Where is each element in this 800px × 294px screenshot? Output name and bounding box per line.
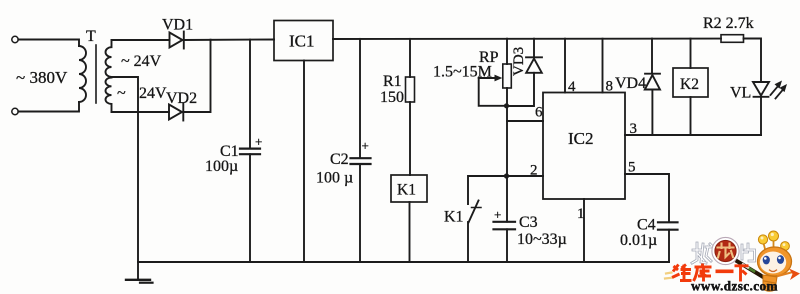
resistor R2 — [721, 35, 744, 43]
IC1 box — [274, 21, 333, 61]
svg-text:2: 2 — [530, 163, 538, 179]
resistor R1 — [406, 77, 415, 102]
watermark text pian — [742, 244, 755, 261]
watermark text xin (chip) in lens — [718, 244, 734, 258]
svg-text:~: ~ — [117, 85, 126, 102]
svg-text:6: 6 — [535, 105, 543, 121]
wire RP bottom — [506, 88, 508, 106]
svg-text:+: + — [362, 138, 369, 153]
transformer core — [95, 45, 97, 103]
node junction RP/VD3 — [504, 103, 509, 108]
relay coil K1 box — [391, 175, 427, 202]
capacitor C1 — [240, 149, 260, 155]
svg-text:VD1: VD1 — [162, 17, 193, 34]
wire VL to pin3 line — [760, 97, 762, 135]
mascot head — [758, 247, 792, 276]
svg-text:www.dzsc.com: www.dzsc.com — [691, 279, 778, 294]
diode VD1 — [170, 32, 184, 49]
wire C4 to ground rail — [668, 230, 670, 262]
capacitor C4 — [658, 222, 678, 229]
svg-text:R2 2.7k: R2 2.7k — [703, 15, 754, 32]
svg-text:VD4: VD4 — [615, 75, 646, 92]
wire K2 branch — [690, 39, 692, 68]
svg-text:VD2: VD2 — [166, 90, 197, 107]
svg-text:VD3: VD3 — [511, 47, 527, 76]
wire IC2 pin 5 — [625, 174, 669, 222]
svg-text:10~33µ: 10~33µ — [517, 231, 567, 248]
svg-text:4: 4 — [568, 79, 576, 95]
wire IC2 pin 1 to ground rail — [583, 199, 585, 262]
svg-text:0.01µ: 0.01µ — [620, 232, 657, 249]
wire junction down to pin2 node — [506, 106, 508, 176]
mascot body — [763, 275, 777, 291]
wire C3 branch — [506, 176, 508, 222]
wire VD4 to pin3 line — [651, 90, 653, 136]
svg-text:K2: K2 — [680, 76, 699, 93]
transformer T secondary winding upper — [106, 40, 112, 77]
wire VD1 cathode to IC1 — [184, 39, 274, 42]
char xia — [735, 266, 749, 282]
svg-text:K1: K1 — [397, 182, 416, 199]
svg-text:IC2: IC2 — [568, 129, 594, 148]
watermark text zhao (find) — [692, 243, 713, 263]
diode VD3 — [509, 39, 542, 106]
char yi — [716, 269, 734, 273]
wire VD4 branch — [651, 39, 653, 74]
wire K1 coil to ground rail — [409, 202, 411, 262]
capacitor C2 — [351, 158, 371, 164]
wire RP branch — [506, 39, 508, 64]
input terminal bottom — [12, 108, 18, 114]
svg-text:+: + — [494, 207, 501, 222]
watermark dzsc.com logo — [665, 231, 800, 294]
svg-text:8: 8 — [606, 79, 614, 95]
potentiometer RP — [503, 64, 512, 88]
mascot arm and tail arrow — [778, 273, 791, 277]
diode VD2 — [169, 104, 183, 121]
wire IC2 pin 3 — [625, 134, 761, 136]
wire to IC2 pin 6 — [507, 120, 543, 122]
wire secondary top to VD1 — [112, 39, 170, 41]
mascot antenna balls — [758, 231, 789, 250]
svg-text:C3: C3 — [519, 214, 538, 231]
svg-text:~ 24V: ~ 24V — [121, 53, 162, 70]
wire primary bottom — [18, 102, 79, 112]
svg-text:R1: R1 — [383, 73, 402, 90]
watermark magnifier handle — [738, 262, 765, 278]
capacitor C3 — [494, 222, 516, 230]
IC2 box — [543, 93, 625, 200]
transformer T secondary winding lower — [105, 78, 111, 113]
wire primary top — [18, 40, 79, 47]
svg-text:C2: C2 — [330, 151, 349, 168]
svg-text:IC1: IC1 — [289, 32, 315, 51]
char ku — [694, 264, 712, 282]
mascot face — [760, 252, 786, 274]
RP wiper arrow — [479, 75, 505, 106]
transformer T primary winding — [79, 46, 86, 102]
relay coil K2 box — [673, 68, 708, 97]
ground rail — [138, 261, 669, 263]
mascot antenna stalks — [764, 241, 785, 251]
diode VD4 — [645, 74, 660, 90]
positive rail after IC1 — [333, 38, 721, 40]
wire IC2 pin 8 — [602, 39, 604, 93]
motion dashes — [665, 273, 672, 279]
svg-text:C4: C4 — [637, 217, 656, 234]
wire R2 to VL — [744, 39, 762, 83]
wire R1 branch — [409, 39, 411, 77]
svg-text:~ 380V: ~ 380V — [16, 68, 68, 87]
wire secondary center tap — [112, 77, 139, 262]
wire to IC2 pin 2 — [507, 175, 543, 177]
svg-text:T: T — [86, 28, 96, 45]
wire C1 to ground rail — [249, 154, 251, 262]
wire C1 branch — [249, 40, 251, 149]
wire VD2 output up to positive rail — [183, 40, 210, 112]
char wei — [672, 265, 692, 282]
wire C3 to ground rail — [506, 229, 508, 262]
svg-text:+: + — [255, 134, 262, 149]
svg-text:3: 3 — [630, 121, 638, 137]
LED VL — [753, 81, 787, 99]
svg-text:5: 5 — [628, 160, 636, 176]
input terminal top — [12, 36, 18, 42]
wire C2 branch — [359, 39, 361, 158]
wire K1 contact to ground rail — [467, 222, 469, 262]
svg-text:100 µ: 100 µ — [316, 170, 353, 187]
relay contact K1 blade — [469, 201, 482, 223]
wire IC2 pin 4 — [564, 39, 566, 93]
watermark lens circle — [712, 237, 739, 264]
wire secondary bottom to VD2 — [112, 111, 170, 113]
wire K2 to pin3 line — [690, 97, 692, 135]
svg-text:VL: VL — [730, 85, 751, 102]
svg-text:1: 1 — [577, 206, 585, 222]
svg-text:K1: K1 — [444, 209, 464, 226]
mascot eyes — [763, 256, 770, 265]
svg-text:24V: 24V — [139, 85, 167, 102]
node junction pin2/K1/C3 — [504, 173, 509, 178]
wire IC1 ground lead — [303, 61, 305, 263]
wire R1 to K1 coil — [409, 102, 411, 175]
ground symbol — [126, 262, 153, 283]
watermark weiku text — [672, 264, 749, 282]
svg-text:100µ: 100µ — [205, 158, 238, 175]
wire K1 contact branch — [468, 176, 504, 204]
wire C2 to ground rail — [359, 164, 361, 262]
svg-text:1.5~15M: 1.5~15M — [433, 64, 492, 81]
svg-text:150: 150 — [380, 89, 404, 106]
mascot mouth — [770, 270, 777, 272]
